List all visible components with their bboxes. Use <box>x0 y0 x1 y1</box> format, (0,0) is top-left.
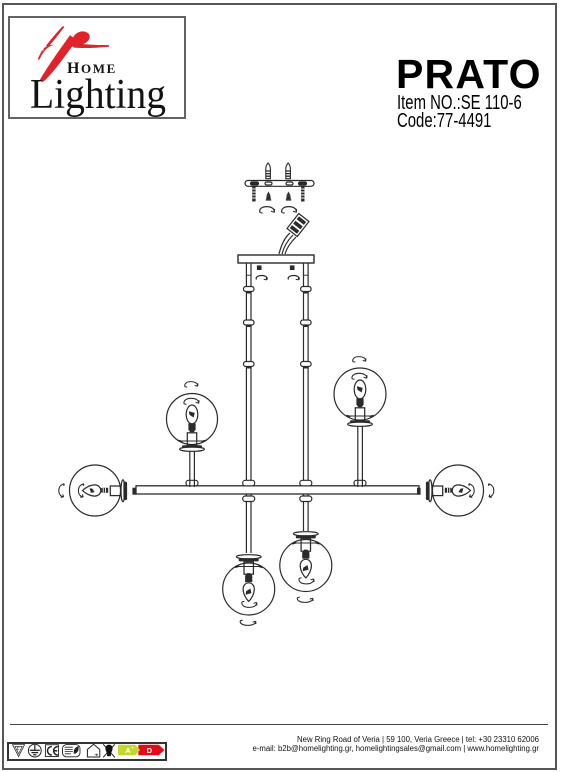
globe neck rim <box>347 415 374 417</box>
globe <box>167 394 218 445</box>
threaded rod left <box>252 186 255 201</box>
right rotate arrow inner <box>469 484 475 498</box>
filament <box>246 589 252 595</box>
rotation arc inside globe <box>184 398 199 404</box>
bar collar rod right above <box>300 480 312 486</box>
HOME text <box>67 61 117 77</box>
canopy screw right <box>291 266 294 269</box>
left end globe <box>70 465 121 516</box>
rotation arrow above globe <box>353 357 366 363</box>
lamp socket <box>302 550 309 559</box>
globe neck rim <box>292 542 319 544</box>
footer separator line <box>10 724 548 725</box>
rod coupler right 1 <box>301 287 312 293</box>
rotation arrow above globe <box>185 382 198 388</box>
left end flange <box>121 480 127 502</box>
flange <box>180 445 205 451</box>
lamp socket <box>356 398 363 407</box>
lamp socket <box>188 423 195 432</box>
bar collar rod left above <box>243 480 255 486</box>
icon CE mark <box>45 745 58 757</box>
flange <box>236 555 261 562</box>
icon green energy leaf label <box>63 745 81 757</box>
upper antenna <box>46 26 64 47</box>
head blob <box>71 29 91 46</box>
bar collar stem upper-right <box>354 480 366 486</box>
wall plug left <box>266 163 271 179</box>
rod coupler left 3 <box>244 362 255 368</box>
right bar end piece <box>417 488 421 495</box>
flange <box>348 420 373 426</box>
rotation arc under bulb <box>242 601 257 607</box>
bar collar rod right below <box>300 496 312 502</box>
rod coupler left 1 <box>244 287 255 293</box>
logo box <box>8 16 186 119</box>
beak wedge <box>42 45 54 55</box>
canopy <box>238 255 314 263</box>
code <box>397 111 491 131</box>
icon indoor-use house <box>87 744 99 757</box>
bulb <box>354 380 366 399</box>
Lighting text <box>30 74 166 116</box>
threaded rod right <box>301 186 304 201</box>
wall plug right <box>286 163 291 179</box>
screw left <box>266 192 271 201</box>
left rotate arrow outer <box>59 484 65 498</box>
bar collar stem upper-left <box>186 480 198 486</box>
left end socket cup <box>110 486 122 496</box>
icon F flammable-surface mark (double triangle with F) <box>13 745 25 757</box>
bulb <box>243 583 254 602</box>
globe neck rim <box>179 440 206 442</box>
right end socket cup <box>430 486 442 496</box>
bulb <box>186 405 198 424</box>
bar collar rod left below <box>243 496 255 502</box>
filament <box>90 488 95 493</box>
rotation ellipse below globe <box>240 620 256 625</box>
right wing spike <box>72 43 110 49</box>
globe <box>280 540 332 592</box>
socket cup <box>301 539 310 551</box>
left end bulb <box>83 485 109 496</box>
lower-left globe assembly <box>223 555 275 626</box>
svg-text:F: F <box>17 747 20 753</box>
wires <box>279 233 296 254</box>
lamp socket <box>101 488 109 493</box>
upper-left globe assembly <box>167 382 218 487</box>
beak lower needle <box>38 50 44 60</box>
upper-right globe assembly <box>334 357 386 487</box>
right rotate arrow outer <box>488 484 494 498</box>
lamp socket <box>245 573 252 582</box>
stem <box>358 426 363 487</box>
left rotate arrow inner <box>78 484 84 498</box>
rotation arrow left top <box>260 207 275 214</box>
lamp socket <box>445 488 453 493</box>
screw right <box>286 192 291 201</box>
PRATO title <box>396 54 542 95</box>
rod coupler left 2 <box>244 320 255 326</box>
energy arrow D red <box>138 745 164 755</box>
rotation arrow canopy left <box>256 275 267 279</box>
globe neck rim <box>235 566 262 568</box>
right end bulb <box>445 485 471 496</box>
svg-text:D: D <box>147 746 153 755</box>
certification icon box <box>7 742 167 762</box>
rod coupler right 2 <box>301 320 312 326</box>
mounting bracket <box>245 181 314 187</box>
footer address text <box>154 735 539 754</box>
body stroke <box>40 35 77 82</box>
filament <box>303 565 309 571</box>
rotation ellipse below globe <box>297 597 313 602</box>
filament <box>189 411 195 417</box>
terminal block <box>287 214 309 237</box>
rotation arrow right top <box>282 207 297 214</box>
item number <box>397 93 522 113</box>
svg-text:+: + <box>131 746 134 751</box>
globe <box>334 368 386 420</box>
icon earth ground symbol <box>28 744 41 757</box>
energy arrow A+ green <box>118 745 140 755</box>
right rod <box>304 263 309 531</box>
lower-right globe assembly <box>280 532 332 603</box>
right end flange <box>426 480 432 502</box>
socket cup <box>244 562 253 574</box>
bulb <box>300 559 311 578</box>
rod coupler right 3 <box>301 362 312 368</box>
stem <box>190 451 195 488</box>
flange <box>293 532 318 539</box>
filament <box>458 488 463 493</box>
rotation arc under bulb <box>299 578 314 584</box>
canopy screw left <box>258 266 261 269</box>
filament <box>357 386 363 392</box>
rotation arc inside globe <box>352 373 367 379</box>
right end globe <box>433 465 484 516</box>
globe <box>223 563 275 615</box>
socket cup <box>355 408 364 420</box>
rotation arrow canopy right <box>288 275 299 279</box>
icon crossed lamp symbol <box>103 744 115 757</box>
horizontal bar <box>136 486 419 494</box>
left bar end piece <box>132 488 136 495</box>
left rod <box>246 263 251 553</box>
red bird logo <box>10 18 184 117</box>
socket cup <box>187 433 196 445</box>
